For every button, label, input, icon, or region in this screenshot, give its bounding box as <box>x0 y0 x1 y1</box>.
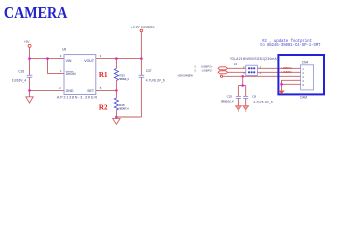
wire USBP2+ to L3 <box>228 67 246 69</box>
wire VIN rail <box>30 58 65 60</box>
svg-text:+5V: +5V <box>24 40 31 44</box>
svg-text:C8: C8 <box>252 94 256 98</box>
wire GND pin <box>30 89 65 91</box>
svg-text:C16: C16 <box>18 69 24 73</box>
svg-text:3: 3 <box>243 71 245 75</box>
svg-text:I1: I1 <box>194 69 197 73</box>
svg-text:3: 3 <box>60 54 62 58</box>
svg-text:1U/16V_4: 1U/16V_4 <box>12 79 26 83</box>
ground C8 <box>243 106 249 110</box>
svg-text:2: 2 <box>260 71 262 75</box>
offpage connector USBP2+ <box>218 67 228 70</box>
power symbol +5V <box>28 44 31 47</box>
regulator U6 <box>57 48 97 100</box>
resistor R30 <box>114 59 129 91</box>
svg-text:*DLA21HN900SGBJ(230mA): *DLA21HN900SGBJ(230mA) <box>230 57 278 61</box>
svg-text:USBP2-: USBP2- <box>202 69 213 73</box>
svg-text:1: 1 <box>60 69 62 73</box>
svg-text:+3.9V CAMERA: +3.9V CAMERA <box>131 25 155 29</box>
wire VOUT rail <box>96 58 142 60</box>
node junction SET/R30 <box>115 89 118 92</box>
connector CN4 <box>278 55 324 99</box>
wire +3.9V rail to CN4 pin3 <box>223 75 301 77</box>
node junction VOUT/R30 <box>115 57 118 60</box>
svg-text:VIN: VIN <box>66 59 72 63</box>
node junction SHDN <box>46 57 49 60</box>
ground CN4 <box>279 91 284 94</box>
svg-text:L3: L3 <box>234 62 238 66</box>
svg-text:CN4: CN4 <box>302 60 309 64</box>
wire SHDN branch <box>48 59 65 74</box>
svg-text:0R0/16V_4: 0R0/16V_4 <box>221 100 234 104</box>
svg-text:GND: GND <box>66 89 74 93</box>
svg-text:U6: U6 <box>62 48 66 52</box>
svg-text:CAM: CAM <box>300 95 307 99</box>
svg-text:*100K/F_4: *100K/F_4 <box>119 107 129 111</box>
svg-text:4: 4 <box>100 54 102 58</box>
wire cap to gnd <box>29 78 31 97</box>
svg-text:2: 2 <box>59 86 61 90</box>
choke L3 <box>230 57 278 75</box>
svg-text:USBP2-: USBP2- <box>282 70 293 74</box>
svg-text:4.7U/6.3V_6: 4.7U/6.3V_6 <box>253 100 273 104</box>
svg-text:CAMERA: CAMERA <box>4 4 67 22</box>
svg-text:4.7U/6.3V_6: 4.7U/6.3V_6 <box>146 79 165 83</box>
wire L3 to CN4 pin1 <box>257 67 300 69</box>
node junction cap rail <box>241 84 244 87</box>
svg-text:5: 5 <box>100 86 102 90</box>
svg-text:SHDN: SHDN <box>66 72 76 76</box>
wire bottom rail <box>116 116 141 118</box>
ground R38 <box>113 119 120 125</box>
capacitor C16 <box>27 74 33 76</box>
svg-text:VOUT: VOUT <box>84 59 95 63</box>
capacitor C25 <box>221 86 241 106</box>
svg-text:R1: R1 <box>99 71 108 79</box>
ground C25 <box>235 106 241 110</box>
wire cap rail <box>238 85 245 87</box>
svg-text:AP2138N-3.3KER: AP2138N-3.3KER <box>57 96 97 100</box>
node junction R38/gnd rail <box>115 116 118 119</box>
svg-text:to 88246-35001-C4-SP-1-SMT: to 88246-35001-C4-SP-1-SMT <box>260 44 321 48</box>
node junction GND <box>28 89 31 92</box>
svg-text:+3.9V CAMERA: +3.9V CAMERA <box>177 74 193 78</box>
wire CN4 pin4 <box>282 80 301 90</box>
wire CN4 pin5 <box>282 83 301 85</box>
wire L3 to CN4 pin2 <box>257 71 300 73</box>
svg-text:*150K/F_4: *150K/F_4 <box>119 77 129 81</box>
svg-text:R2: R2 <box>99 103 108 111</box>
svg-text:C37: C37 <box>146 69 152 73</box>
capacitor C37 <box>139 74 145 76</box>
power symbol +3.9V CAMERA <box>140 29 143 32</box>
wire C37 to rail <box>140 78 142 118</box>
svg-text:C25: C25 <box>227 94 233 98</box>
svg-text:SET: SET <box>87 89 95 93</box>
wire +5V down <box>29 47 31 75</box>
wire SET rail <box>96 89 117 91</box>
wire cap feed <box>242 76 244 85</box>
power symbol +3.9V right <box>220 75 222 77</box>
node junction decoupling <box>241 75 244 78</box>
ground left <box>26 97 33 103</box>
node junction VOUT/C37 <box>140 57 143 60</box>
node junction pin5 <box>280 83 283 86</box>
wire +3.9V down <box>140 32 142 75</box>
offpage connector USBP2- <box>218 71 228 74</box>
capacitor C8 <box>243 86 273 106</box>
resistor R38 <box>114 90 129 117</box>
node junction +5V <box>28 57 31 60</box>
wire USBP2- to L3 <box>228 71 246 73</box>
